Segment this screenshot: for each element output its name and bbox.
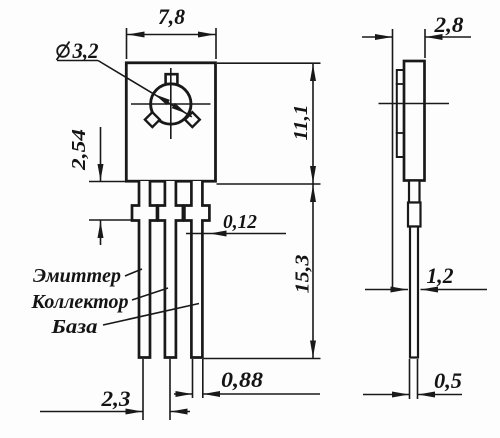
dimension 0,5 left line [363, 394, 410, 396]
collector lead outline [158, 181, 183, 358]
svg-text:2,54: 2,54 [68, 129, 90, 171]
side lead right extension line [417, 359, 419, 399]
dimension 2,8 left arrow [375, 34, 392, 40]
lower-right diamond tab [185, 112, 200, 127]
side view mounting tab strip [397, 70, 404, 157]
dimension 2,54 down arrow [98, 164, 104, 181]
svg-text:1,2: 1,2 [427, 263, 454, 288]
lower-left diamond tab [145, 112, 160, 127]
dimension 0,88 right arrow [203, 391, 220, 397]
side view body [404, 61, 425, 181]
base lead outline [184, 181, 209, 358]
dimension 1,2 left line [365, 289, 408, 291]
dimension 1,2 right arrow [421, 287, 438, 293]
side view front-face plane line [392, 29, 394, 290]
centerline vertical through hole [170, 68, 172, 139]
side view centerline [379, 103, 450, 105]
dimension 7,8 left extension line [126, 28, 128, 59]
package body front view [126, 63, 215, 181]
dimension 2,54 up arrow [98, 221, 104, 238]
leader line base [103, 304, 199, 326]
svg-text:База: База [50, 316, 97, 338]
base lead left edge extension line [192, 359, 194, 398]
arrow at lower-right inside hole [172, 103, 187, 114]
dimension 0,88 right line [203, 393, 320, 395]
dimension 0,12 arrow [210, 231, 227, 237]
svg-text:0,12: 0,12 [223, 211, 257, 233]
dimension 7,8 right extension line [215, 28, 217, 59]
shared extension line at body bottom [217, 183, 321, 185]
dimension 1,2 right line [421, 289, 488, 291]
svg-text:2,8: 2,8 [433, 12, 463, 37]
dimension 1,2 left arrow [391, 287, 408, 293]
dimension 11,1 down arrow [310, 166, 316, 183]
dimension 2,54 line upper [100, 127, 102, 182]
tab strip tick 2 [396, 132, 405, 134]
side view lead [410, 227, 418, 358]
dimension 2,54 upper extension line [89, 181, 127, 183]
dimension 2,8 right extension line [424, 29, 426, 58]
dimension 2,8 right line [425, 36, 471, 38]
hole diameter symbol [57, 45, 69, 57]
leader line for hole diameter [57, 60, 98, 62]
emitter lead center extension line [142, 359, 144, 420]
dimension 7,8 left arrow [128, 32, 145, 38]
svg-text:Эмиттер: Эмиттер [33, 265, 121, 287]
top tab on hole [166, 74, 178, 85]
mounting hole circle [151, 84, 191, 124]
dimension 7,8 right arrow [198, 32, 215, 38]
dimension 2,54 lower extension line [89, 219, 134, 221]
dimension 2,3 left arrow [126, 409, 143, 415]
dimension 11,1 line [312, 63, 314, 184]
emitter lead outline [132, 181, 157, 358]
svg-text:7,8: 7,8 [158, 4, 185, 29]
dimension 2,8 left line [362, 36, 393, 38]
side view lead shoulder [408, 203, 421, 227]
dimension 2,8 right arrow [426, 34, 443, 40]
arrow at upper-left inside hole [155, 94, 170, 105]
dimension 11,1 top extension line [217, 62, 321, 64]
collector lead center extension line [169, 359, 171, 420]
leader diagonal for hole diameter [98, 61, 192, 117]
dimension 15,3 down arrow [310, 341, 316, 358]
dimension 0,12 line [186, 233, 286, 235]
svg-text:2,3: 2,3 [100, 386, 130, 411]
leader line collector [132, 288, 168, 300]
dimension 0,5 right line [418, 394, 463, 396]
dimension 11,1 up arrow [310, 64, 316, 81]
tab strip tick 1 [396, 83, 405, 85]
dimension 0,88 left line [174, 393, 193, 395]
dimension 2,54 line lower [100, 220, 102, 245]
dimension 15,3 up arrow [310, 185, 316, 202]
svg-text:3,2: 3,2 [72, 38, 99, 63]
dimension 0,5 left arrow [392, 392, 409, 398]
dimension 0,88 left arrow [176, 391, 193, 397]
leader line emitter [125, 269, 142, 276]
dimension 0,5 right arrow [418, 392, 435, 398]
dimension 2,3 right line [170, 411, 190, 413]
dimension 7,8 line [127, 34, 217, 36]
side lead left extension line [409, 359, 411, 399]
svg-text:0,88: 0,88 [221, 367, 263, 392]
svg-text:Коллектор: Коллектор [30, 291, 128, 313]
dimension 15,3 line [312, 184, 314, 359]
base lead right edge extension line [202, 359, 204, 398]
svg-text:0,5: 0,5 [434, 368, 462, 393]
svg-text:11,1: 11,1 [290, 105, 312, 141]
side view lead neck [409, 181, 420, 203]
centerline horizontal through hole [131, 103, 211, 105]
svg-text:15,3: 15,3 [292, 255, 314, 294]
dimension 2,3 right arrow [171, 409, 188, 415]
dimension 2,3 line [40, 411, 143, 413]
extension line at lead bottoms [204, 358, 321, 360]
